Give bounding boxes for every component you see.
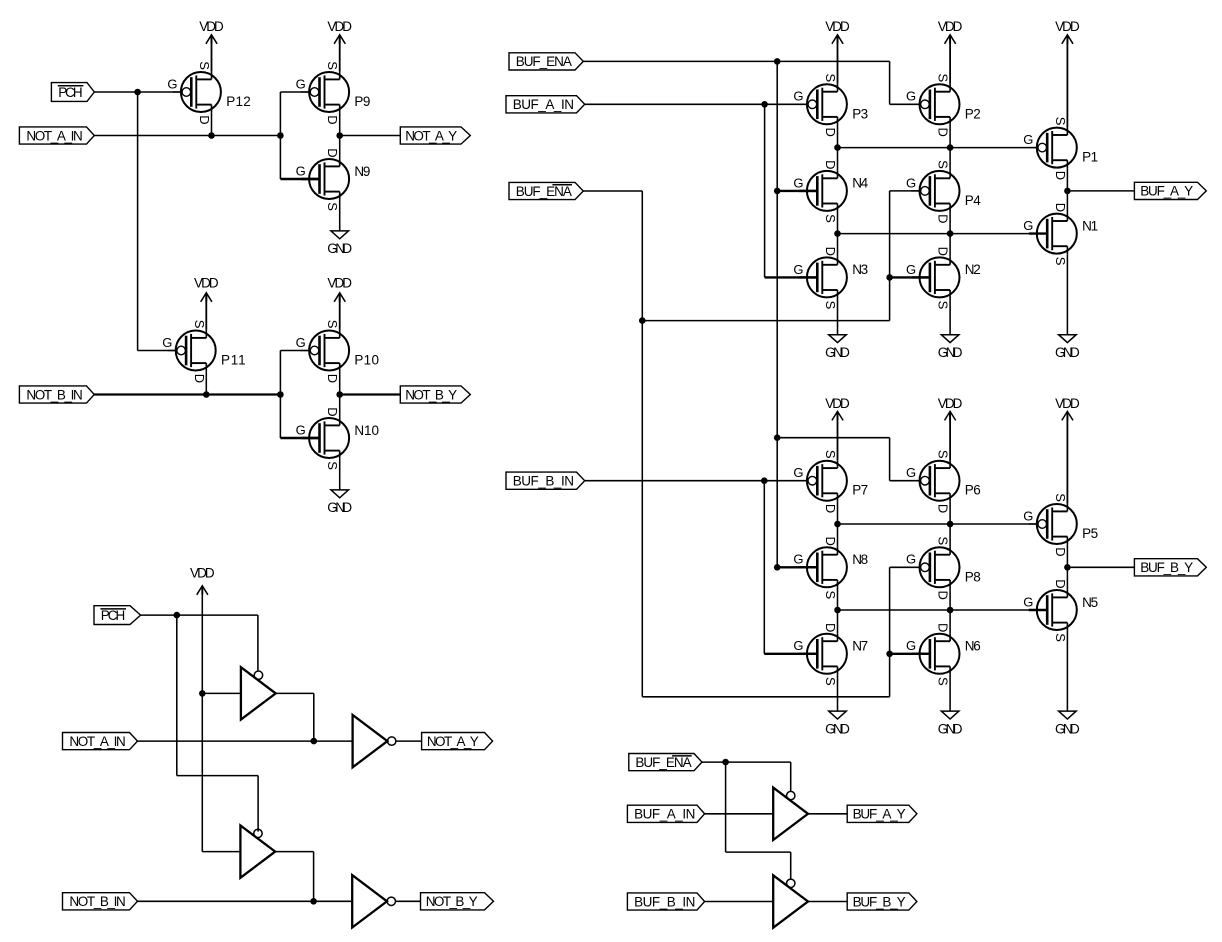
- svg-text:P5: P5: [1082, 526, 1098, 541]
- transistor P7: [793, 450, 868, 513]
- svg-text:P6: P6: [965, 483, 981, 498]
- net label NOT_A_IN: [19, 127, 94, 144]
- wire NOT_A_IN row: [138, 740, 353, 742]
- svg-text:PCH: PCH: [101, 608, 125, 623]
- junction VDD / inv1 input: [199, 690, 206, 697]
- svg-text:BUF_A_IN: BUF_A_IN: [513, 97, 574, 112]
- svg-text:NOT_B_Y: NOT_B_Y: [405, 387, 457, 402]
- wire P4 drain to N2 drain: [949, 212, 951, 257]
- wire NOT_B_IN (bold): [94, 393, 280, 395]
- wire P1 drain to N1 drain: [1066, 168, 1068, 213]
- wire ENAbar to buf A enable: [702, 761, 791, 763]
- junction node1b col2: [947, 521, 954, 528]
- power VDD (above P2): [938, 19, 963, 44]
- wire BUF_A_IN to P3 gate: [585, 103, 808, 105]
- inverter NOT B: [352, 875, 387, 927]
- wire to P10 gate: [280, 350, 310, 352]
- net label BUF_A_IN: [506, 96, 585, 113]
- svg-text:VDD: VDD: [1055, 19, 1080, 34]
- wire VDD to inv3 input: [202, 851, 240, 853]
- wire VDD to P11 source: [205, 293, 207, 330]
- svg-text:N5: N5: [1082, 595, 1098, 610]
- svg-text:VDD: VDD: [938, 396, 963, 411]
- svg-text:VDD: VDD: [194, 276, 219, 291]
- junction NOT_B_IN / gate branch: [277, 391, 284, 398]
- junction BUF_A_Y node: [1064, 188, 1071, 195]
- wire P11 drain to NOT_B_IN net: [205, 371, 207, 394]
- wire inv3 output: [275, 851, 313, 853]
- net label BUF_ENA-bar: [509, 182, 583, 199]
- power GND (below N5): [1055, 711, 1080, 736]
- svg-text:NOT_A_IN: NOT_A_IN: [69, 734, 125, 749]
- svg-text:N2: N2: [965, 262, 981, 277]
- wire to P2 gate: [890, 103, 921, 105]
- net label PCH (gate level): [94, 606, 141, 625]
- wire node1b to P5 gate: [838, 523, 1038, 525]
- transistor P11: [162, 320, 245, 383]
- junction node1 col1: [834, 144, 841, 151]
- svg-text:VDD: VDD: [825, 396, 850, 411]
- svg-text:NOT_B_IN: NOT_B_IN: [69, 894, 125, 909]
- power GND (below N10): [327, 490, 352, 515]
- wire P9 drain to output node: [339, 113, 341, 136]
- wire P7 drain to N8 drain: [837, 501, 839, 546]
- wire N5 source to GND: [1066, 631, 1068, 712]
- net label BUF_A_IN (gate level): [627, 805, 704, 822]
- svg-text:GND: GND: [1055, 345, 1080, 360]
- wire BUF_B_IN to P7 gate: [585, 480, 808, 482]
- power GND (below N9): [327, 231, 352, 256]
- wire BUF_ENAbar: [583, 190, 642, 192]
- svg-text:BUF_A_Y: BUF_A_Y: [853, 807, 906, 822]
- wire BUF_A_IN down to N3: [764, 104, 766, 277]
- transistor P8: [906, 537, 981, 600]
- svg-text:P11: P11: [221, 353, 246, 368]
- junction at N2 gate: [886, 274, 893, 281]
- wire P2 drain to P4 source: [949, 125, 951, 170]
- wire to N2 gate: [890, 276, 930, 278]
- junction BUF_ENA / P6 branch: [774, 434, 781, 441]
- svg-text:P9: P9: [354, 94, 370, 109]
- wire to NOT_B_Y label (bold): [340, 393, 401, 395]
- transistor N3: [793, 247, 868, 310]
- svg-text:P1: P1: [1082, 150, 1098, 165]
- svg-text:P8: P8: [965, 569, 981, 584]
- transistor P4: [906, 160, 981, 223]
- wire PCH to P12 gate: [94, 91, 182, 93]
- transistor N8: [793, 537, 868, 600]
- wire P12 drain to NOT_A_IN net: [211, 113, 213, 136]
- wire inv3 output down: [313, 852, 315, 902]
- junction at N4 gate: [774, 188, 781, 195]
- transistor P12: [167, 61, 250, 124]
- transistor P5: [1023, 493, 1098, 556]
- power VDD (above P10): [327, 276, 352, 302]
- svg-text:NOT_A_Y: NOT_A_Y: [427, 734, 479, 749]
- power VDD (above P11): [194, 276, 219, 302]
- wire P3 drain to N4 drain: [837, 125, 839, 170]
- wire VDD to P12 source: [211, 35, 213, 72]
- wire BUF_ENA long vertical: [776, 61, 778, 567]
- power GND (below N6): [938, 711, 963, 736]
- wire VDD to P3: [837, 35, 839, 84]
- wire N9 drain to output node: [339, 136, 341, 159]
- wire N2 source to GND: [949, 298, 951, 335]
- svg-text:N1: N1: [1082, 218, 1098, 233]
- svg-text:GND: GND: [938, 721, 963, 736]
- net label NOT_B_IN (gate level): [63, 893, 138, 910]
- transistor N4: [793, 160, 868, 223]
- wire BUF_ENA down to P2 gate: [889, 61, 891, 104]
- inverter NOT A: [353, 715, 388, 767]
- wire ENAbar vertical: [725, 762, 727, 852]
- transistor P3: [793, 74, 868, 137]
- inverter B output bubble: [387, 897, 395, 905]
- junction BUF_ENAbar / A branch: [639, 317, 646, 324]
- wire buffer A output: [808, 813, 847, 815]
- wire gate branch vertical B: [279, 351, 281, 439]
- svg-text:N4: N4: [852, 176, 868, 191]
- svg-text:VDD: VDD: [190, 566, 215, 581]
- svg-text:BUF_A_Y: BUF_A_Y: [1140, 184, 1193, 199]
- wire to N7 gate: [764, 653, 817, 655]
- wire down to bufA bubble: [790, 762, 792, 791]
- svg-text:BUF_B_IN: BUF_B_IN: [513, 474, 574, 489]
- wire N6 source to GND: [949, 674, 951, 711]
- power VDD (above P5): [1055, 396, 1080, 421]
- wire P8 drain to N6 drain: [949, 588, 951, 633]
- wire BUF_ENAbar long vertical: [641, 191, 643, 697]
- power VDD (above P1): [1055, 19, 1080, 44]
- wire to NOT_A_Y label: [340, 135, 401, 137]
- wire VDD to P10 source: [339, 293, 341, 330]
- tri-state buffer B: [773, 875, 808, 927]
- svg-text:GND: GND: [1055, 721, 1080, 736]
- svg-text:N6: N6: [965, 639, 981, 654]
- svg-text:VDD: VDD: [199, 19, 224, 34]
- wire P6 drain to P8 source: [949, 501, 951, 546]
- power VDD (above P7): [825, 396, 850, 421]
- junction at N6 gate: [886, 651, 893, 658]
- wire PCH down to P11 gate: [137, 92, 139, 351]
- wire to P9 gate: [280, 91, 310, 93]
- svg-text:GND: GND: [825, 345, 850, 360]
- wire BUF_ENA: [583, 60, 889, 62]
- net label NOT_B_IN: [19, 386, 94, 403]
- wire to BUF_B_Y label: [1067, 566, 1134, 568]
- svg-text:BUF_B_Y: BUF_B_Y: [1140, 560, 1193, 575]
- svg-text:P2: P2: [965, 106, 981, 121]
- wire VDD to P2: [949, 35, 951, 84]
- wire buffer B output: [808, 901, 847, 903]
- svg-text:GND: GND: [327, 500, 352, 515]
- net label NOT_A_Y (gate level): [422, 733, 493, 750]
- wire N4 source to N3 drain: [837, 212, 839, 257]
- junction node2 col2: [947, 230, 954, 237]
- wire to P11 gate: [138, 350, 177, 352]
- wire BUF_A_IN to buffer: [705, 813, 774, 815]
- wire to N3 gate: [765, 276, 818, 278]
- junction NOT_A_IN / gate branch: [277, 132, 284, 139]
- power VDD (above P3): [825, 19, 850, 44]
- tri-state buffer A: [773, 788, 808, 840]
- wire N10 source to GND: [339, 459, 341, 490]
- net label PCH (input flag): [51, 83, 94, 102]
- net label NOT_B_Y (gate level): [421, 893, 494, 910]
- junction inv3 output / NOT_B_IN: [310, 898, 317, 905]
- wire BUF_ENAbar B run: [642, 696, 889, 698]
- junction BUF_B_IN vertical: [761, 477, 768, 484]
- junction NOT_B_Y node: [336, 391, 343, 398]
- net label NOT_B_Y: [400, 386, 470, 403]
- svg-text:BUF_ENA: BUF_ENA: [516, 54, 572, 69]
- svg-text:VDD: VDD: [1055, 396, 1080, 411]
- wire VDD rail down: [201, 586, 203, 852]
- svg-text:PCH: PCH: [58, 85, 82, 100]
- svg-text:P4: P4: [965, 193, 981, 208]
- wire to P6 gate: [890, 480, 921, 482]
- svg-text:N9: N9: [354, 164, 370, 179]
- svg-text:VDD: VDD: [825, 19, 850, 34]
- wire PCH to inv1 enable: [141, 614, 258, 616]
- net label BUF_ENA-bar (gate level): [629, 754, 702, 771]
- transistor P10: [296, 320, 379, 383]
- wire BUF_B_IN down to N7: [763, 481, 765, 654]
- svg-text:GND: GND: [825, 721, 850, 736]
- wire PCH vertical: [176, 615, 178, 776]
- wire to inv1 input: [202, 692, 241, 694]
- power GND (below N2): [938, 335, 963, 360]
- power GND (below N3): [825, 335, 850, 360]
- transistor P6: [906, 450, 981, 513]
- wire VDD to P5: [1066, 413, 1068, 504]
- junction BUF_ENA vertical: [774, 58, 781, 65]
- svg-text:P7: P7: [852, 483, 868, 498]
- junction node1b col1: [834, 521, 841, 528]
- wire node2b to N5 gate: [838, 609, 1048, 611]
- wire to N10 gate: [280, 437, 319, 439]
- transistor P9: [296, 61, 371, 124]
- wire VDD to P9 source: [339, 35, 341, 72]
- junction PCH branch: [174, 612, 181, 619]
- junction at N8 gate: [774, 564, 781, 571]
- wire to BUF_A_Y label: [1067, 190, 1134, 192]
- wire node1 to P1 gate: [838, 147, 1038, 149]
- svg-text:BUF_B_Y: BUF_B_Y: [853, 894, 906, 909]
- power VDD (above P6): [938, 396, 963, 421]
- wire N1 source to GND: [1066, 254, 1068, 335]
- svg-text:GND: GND: [327, 241, 352, 256]
- wire P4/N2 gate vertical: [889, 191, 891, 321]
- wire NOT_A_IN: [94, 135, 280, 137]
- inverter A output bubble: [388, 737, 396, 745]
- transistor P1: [1023, 117, 1098, 180]
- wire to P8 gate: [890, 566, 921, 568]
- wire to NOT_B_Y: [396, 900, 421, 902]
- power VDD (gate-level NOT): [190, 566, 215, 595]
- svg-text:NOT_B_Y: NOT_B_Y: [426, 894, 478, 909]
- wire down to inv1 bubble: [257, 615, 259, 670]
- svg-text:BUF_ENA: BUF_ENA: [516, 184, 572, 199]
- svg-text:NOT_A_Y: NOT_A_Y: [405, 128, 457, 143]
- wire P8/N6 gate vertical: [889, 567, 891, 697]
- wire to N4 gate: [777, 190, 817, 192]
- wire N9 source to GND: [339, 200, 341, 231]
- net label BUF_ENA: [509, 53, 583, 70]
- svg-text:VDD: VDD: [327, 276, 352, 291]
- net label BUF_B_Y: [1134, 559, 1206, 576]
- transistor N1: [1023, 203, 1098, 266]
- transistor N5: [1023, 579, 1098, 642]
- wire N10 drain to output node: [339, 395, 341, 418]
- transistor N9: [296, 148, 371, 211]
- junction BUF_A_IN vertical: [761, 101, 768, 108]
- junction node2b col1: [834, 607, 841, 614]
- net label BUF_B_IN (gate level): [627, 893, 704, 910]
- wire PCH to inv3 enable: [177, 775, 258, 777]
- svg-text:N3: N3: [852, 262, 868, 277]
- net label BUF_A_Y: [1134, 182, 1206, 199]
- wire P5 drain to N5 drain: [1066, 545, 1068, 590]
- junction BUF_B_Y node: [1064, 564, 1071, 571]
- wire to N9 gate: [280, 178, 319, 180]
- junction node2b col2: [947, 607, 954, 614]
- wire VDD to P1: [1066, 36, 1068, 127]
- net label BUF_A_Y (gate level): [847, 805, 917, 822]
- wire to P4 gate: [890, 190, 921, 192]
- power VDD (above P12): [199, 19, 224, 44]
- wire NOT_B_IN row: [138, 900, 353, 902]
- wire VDD to P7: [837, 411, 839, 460]
- svg-text:NOT_A_IN: NOT_A_IN: [26, 128, 82, 143]
- svg-text:BUF_A_IN: BUF_A_IN: [634, 807, 695, 822]
- transistor N7: [793, 623, 868, 686]
- junction ENAbar branch: [722, 759, 729, 766]
- junction NOT_A_Y node: [336, 132, 343, 139]
- wire inv1 output: [276, 692, 314, 694]
- svg-text:BUF_B_IN: BUF_B_IN: [634, 894, 695, 909]
- junction node2 col1: [834, 230, 841, 237]
- junction NOT_A_IN / P12 drain: [208, 132, 215, 139]
- wire down to P6 gate: [889, 438, 891, 481]
- wire to N6 gate: [890, 653, 930, 655]
- svg-text:VDD: VDD: [938, 19, 963, 34]
- wire gate branch vertical: [279, 92, 281, 179]
- net label NOT_A_Y: [400, 127, 470, 144]
- svg-text:N8: N8: [852, 552, 868, 567]
- wire node2 to N1 gate: [838, 233, 1048, 235]
- junction NOT_B_IN / P11 drain: [203, 391, 210, 398]
- wire to N8 gate: [777, 566, 817, 568]
- junction node1 col2: [947, 144, 954, 151]
- wire inv1 output down: [313, 693, 315, 741]
- transistor N2: [906, 247, 981, 310]
- junction PCH / P11 branch: [134, 89, 141, 96]
- svg-text:P12: P12: [226, 94, 251, 109]
- power GND (below N7): [825, 711, 850, 736]
- tri-state inverter (PCH pull-up A): [241, 667, 276, 719]
- wire VDD to P6: [949, 411, 951, 460]
- wire N8 source to N7 drain: [837, 588, 839, 633]
- net label BUF_B_Y (gate level): [847, 893, 917, 910]
- wire down to inv3 bubble: [257, 776, 259, 832]
- svg-text:NOT_B_IN: NOT_B_IN: [26, 387, 82, 402]
- svg-text:GND: GND: [938, 345, 963, 360]
- wire down to bufB bubble: [790, 852, 792, 879]
- net label NOT_A_IN (gate level): [63, 733, 138, 750]
- svg-text:BUF_ENA: BUF_ENA: [635, 755, 691, 770]
- svg-text:N7: N7: [852, 639, 868, 654]
- wire N7 source to GND: [837, 674, 839, 711]
- junction inv1 output / NOT_A_IN: [311, 738, 318, 745]
- wire BUF_B_IN to buffer: [705, 901, 774, 903]
- wire to NOT_A_Y: [396, 740, 422, 742]
- svg-text:P10: P10: [354, 353, 379, 368]
- net label BUF_B_IN: [506, 472, 585, 489]
- wire N3 source to GND: [837, 298, 839, 335]
- svg-text:VDD: VDD: [327, 19, 352, 34]
- power GND (below N1): [1055, 335, 1080, 360]
- svg-text:P3: P3: [852, 106, 868, 121]
- wire BUF_ENAbar A run: [642, 320, 889, 322]
- wire ENAbar to buf B enable: [726, 851, 791, 853]
- wire P10 drain to output node: [339, 371, 341, 394]
- power VDD (above P9): [327, 19, 352, 44]
- transistor P2: [906, 74, 981, 137]
- transistor N10: [296, 407, 379, 470]
- transistor N6: [906, 623, 981, 686]
- svg-text:N10: N10: [354, 423, 379, 438]
- tri-state inverter (PCH pull-up B): [240, 825, 275, 877]
- wire BUF_ENA to P6: [777, 437, 889, 439]
